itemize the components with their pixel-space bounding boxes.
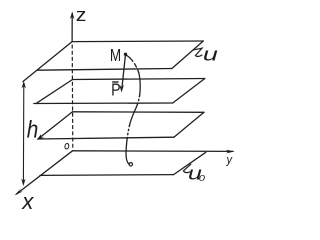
svg-text:M: M — [110, 46, 121, 65]
svg-text:x: x — [21, 189, 34, 214]
svg-text:h: h — [27, 116, 39, 143]
svg-text:P: P — [111, 82, 121, 100]
svg-text:O: O — [64, 141, 70, 151]
svg-text:y: y — [226, 153, 234, 167]
svg-text:u: u — [203, 44, 218, 65]
svg-text:0: 0 — [199, 174, 206, 183]
svg-text:z: z — [76, 5, 87, 25]
